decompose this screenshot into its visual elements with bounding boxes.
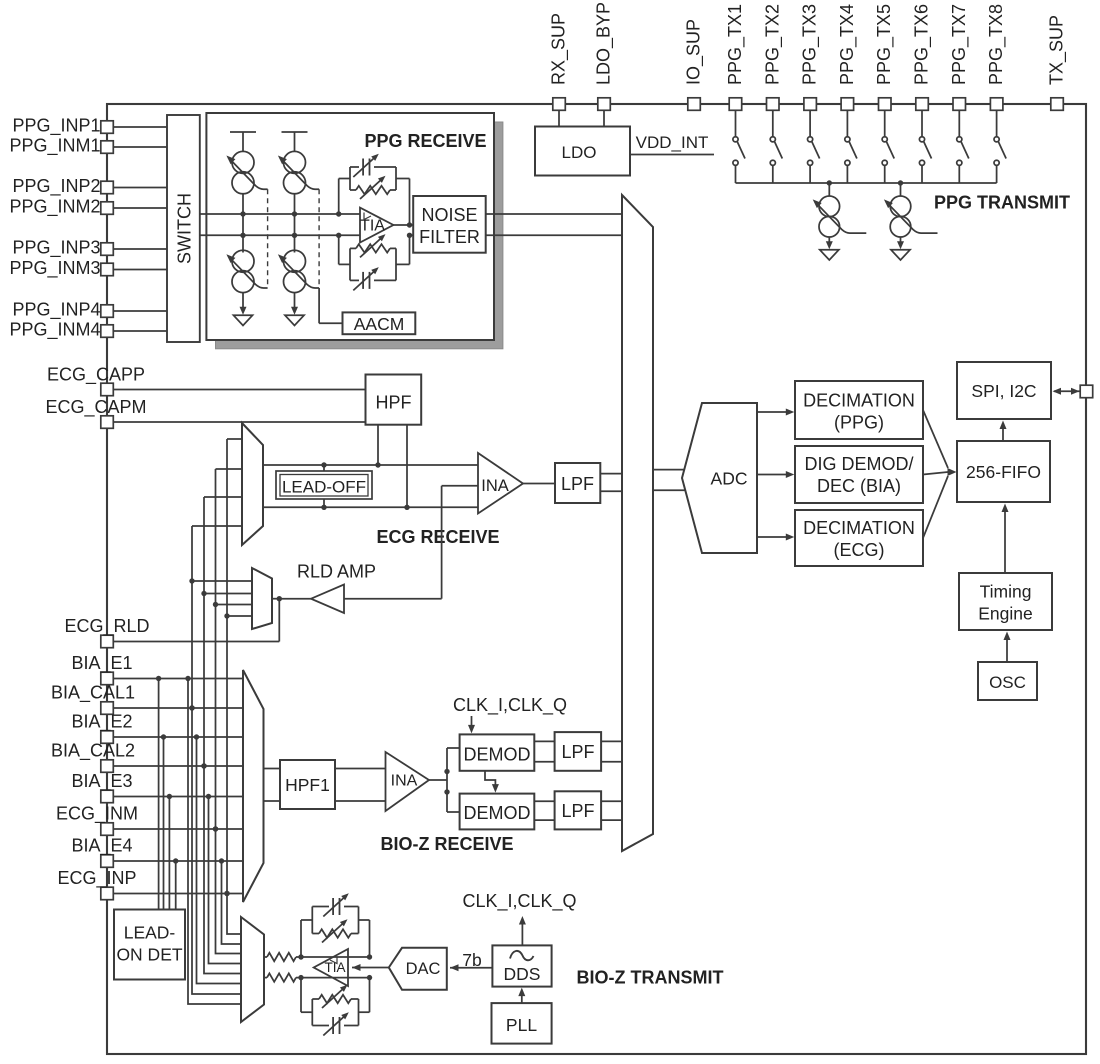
BIO-Z TX mux	[241, 917, 264, 1022]
wire to BIO-Z TX mux	[216, 829, 242, 954]
svg-text:Engine: Engine	[978, 604, 1033, 624]
svg-text:ECG_INM: ECG_INM	[56, 804, 138, 825]
block LPF (ECG)	[555, 463, 600, 503]
block OSC	[978, 662, 1037, 700]
pin PPG_INM3	[101, 263, 114, 276]
wire ECG line upper	[263, 464, 478, 466]
block LPF I	[555, 732, 602, 771]
svg-text:DEC (BIA): DEC (BIA)	[817, 476, 901, 496]
block Timing Engine	[959, 573, 1052, 630]
wire ECG mux in4	[192, 525, 242, 527]
current source lower col1	[232, 250, 254, 272]
wire to BIO-Z TX mux	[204, 766, 241, 974]
wire PPG_INP4 to SWITCH	[114, 310, 168, 312]
pin IO_SUP	[688, 98, 701, 111]
PPG RECEIVE block shadow	[216, 122, 503, 349]
arrow DDS to CLK_I,CLK_Q	[521, 921, 523, 945]
ADC block	[682, 403, 757, 553]
svg-text:DECIMATION: DECIMATION	[803, 391, 915, 411]
pin PPG_TX3	[804, 98, 817, 111]
svg-text:PPG_TX5: PPG_TX5	[874, 4, 895, 85]
svg-text:256-FIFO: 256-FIFO	[966, 462, 1041, 482]
svg-text:PPG_INP4: PPG_INP4	[12, 300, 100, 321]
current source upper col2	[284, 151, 306, 173]
arrow CLK to DEMOD I	[471, 716, 473, 729]
ECG input mux	[242, 423, 263, 545]
svg-text:PPG_INM2: PPG_INM2	[9, 197, 100, 218]
wire RX_SUP to LDO	[558, 110, 560, 126]
svg-text:ECG RECEIVE: ECG RECEIVE	[376, 527, 499, 547]
wire NOISE FILTER out1 to mux	[486, 213, 622, 215]
pin PPG_INP1	[101, 121, 114, 134]
DAC block	[389, 948, 447, 990]
block PLL	[492, 1003, 552, 1044]
wire PPG_INM2 to SWITCH	[114, 207, 168, 209]
ground PPG TX	[826, 241, 833, 249]
wire lower net to NOISE FILTER	[410, 234, 414, 236]
wire TIA in lower	[301, 977, 370, 979]
dashed link col1	[267, 189, 269, 288]
wire RLD mux in4	[227, 615, 252, 617]
pin ECG_CAPP	[101, 383, 114, 396]
svg-text:LEAD-: LEAD-	[124, 923, 176, 943]
pin ECG_INM	[101, 823, 114, 836]
wire BIA_E3 to BIA mux	[114, 796, 244, 798]
svg-text:VDD_INT: VDD_INT	[636, 133, 709, 152]
pin PPG_TX1	[729, 98, 742, 111]
block HPF	[366, 375, 422, 425]
wire bus to tx current source	[900, 183, 902, 197]
op-amp TIA (PPG)	[360, 208, 393, 243]
switch PPG_TX6	[921, 110, 923, 136]
wire bus to tx current source	[828, 183, 830, 197]
svg-text:PPG_TX3: PPG_TX3	[800, 4, 821, 85]
pin PPG_INM1	[101, 141, 114, 154]
svg-text:PPG_TX4: PPG_TX4	[837, 4, 858, 85]
wire DEMOD Q to LPF Q b	[534, 819, 554, 821]
svg-text:ON DET: ON DET	[116, 945, 182, 965]
wire col1 to ground	[242, 293, 244, 308]
wire RLD mux in3	[216, 604, 253, 606]
arrow DAC to TIA	[352, 967, 389, 969]
op-amp INA (ECG)	[478, 453, 523, 514]
svg-text:SWITCH: SWITCH	[175, 193, 195, 264]
wire tx current source to ground	[900, 237, 902, 243]
pin PPG_TX8	[990, 98, 1003, 111]
wire RLD mux in1	[192, 580, 252, 582]
arrow into FIFO	[948, 468, 957, 476]
svg-text:PPG_TX2: PPG_TX2	[762, 4, 783, 85]
svg-text:PPG_TX8: PPG_TX8	[986, 4, 1007, 85]
analog mux (central)	[622, 195, 653, 851]
wire E1 to LEAD-ON DET	[158, 679, 160, 910]
wire PPG_INP1 to SWITCH	[114, 126, 168, 128]
block DEMOD I	[460, 734, 535, 770]
svg-text:PPG_TX7: PPG_TX7	[949, 4, 970, 85]
svg-text:DEMOD: DEMOD	[464, 803, 531, 823]
block LEAD-ON DET	[114, 910, 185, 980]
pin PPG_INP3	[101, 243, 114, 256]
arrow ADC to DECIMATION PPG	[757, 411, 789, 413]
svg-text:DDS: DDS	[504, 964, 541, 984]
wire INA out split	[429, 779, 447, 781]
wire DIG DEMOD to FIFO	[923, 472, 948, 475]
TIA TX lower feedback network	[300, 978, 302, 1013]
wire HPF left down	[377, 425, 379, 465]
current source PPG TX	[819, 196, 840, 217]
wire PPG rx line2	[200, 234, 360, 236]
block AACM	[343, 312, 416, 334]
svg-text:RLD AMP: RLD AMP	[297, 562, 376, 582]
main chip border	[107, 104, 1086, 1054]
wire INA out to LPF	[523, 483, 555, 485]
arrow DEMOD I to DEMOD Q	[485, 771, 495, 787]
wire TIA in upper	[301, 956, 370, 958]
wire NOISE FILTER out2 to mux	[486, 234, 622, 236]
wire to BIO-Z TX mux	[222, 861, 242, 944]
wire PPG rx line1	[200, 213, 360, 215]
wire PPG_INM1 to SWITCH	[114, 146, 168, 148]
wire ECG mux in2	[216, 468, 243, 470]
block DEMOD Q	[460, 794, 535, 830]
svg-text:LPF: LPF	[561, 474, 594, 494]
wire BIA mux to HPF1 upper	[264, 768, 281, 770]
block 256-FIFO	[957, 441, 1050, 502]
wire DECIMATION PPG to FIFO	[923, 410, 948, 468]
svg-text:INA: INA	[481, 477, 509, 495]
wire harness vertical INP/ECG	[226, 439, 228, 894]
wire PPG_INP3 to SWITCH	[114, 248, 168, 250]
svg-text:(PPG): (PPG)	[834, 413, 884, 433]
svg-text:PPG_INM3: PPG_INM3	[9, 258, 100, 279]
svg-text:INA: INA	[391, 773, 418, 790]
wire SPI to pin (bidirectional)	[1054, 390, 1080, 392]
switch PPG_TX2	[772, 110, 774, 136]
pin BIA_E3	[101, 790, 114, 803]
wire LPF to mux 2	[600, 490, 622, 492]
arrow Timing Engine to FIFO	[1004, 507, 1006, 573]
pin PPG_INM4	[101, 325, 114, 338]
svg-text:LPF: LPF	[561, 801, 594, 821]
arrow ADC to DECIMATION ECG	[757, 536, 789, 538]
block DECIMATION (PPG)	[795, 381, 923, 439]
wire AACM link	[319, 322, 342, 324]
svg-text:ECG_CAPP: ECG_CAPP	[47, 365, 145, 386]
ground col1	[240, 307, 247, 315]
wire LEAD-OFF bottom stub	[323, 499, 325, 507]
wire RLD amp out	[279, 598, 311, 600]
pin PPG_INM2	[101, 202, 114, 215]
svg-text:BIO-Z TRANSMIT: BIO-Z TRANSMIT	[577, 968, 724, 988]
RLD mux	[252, 568, 272, 629]
pin ECG_RLD	[101, 635, 114, 648]
wire PPG_INM4 to SWITCH	[114, 330, 168, 332]
pin PPG_TX2	[767, 98, 780, 111]
wire LEAD-OFF top stub	[323, 465, 325, 471]
svg-text:ECG_INP: ECG_INP	[57, 868, 136, 889]
svg-text:CLK_I,CLK_Q: CLK_I,CLK_Q	[453, 695, 567, 716]
arrow ADC to DIG DEMOD	[757, 474, 789, 476]
dashed link col2	[318, 189, 320, 288]
svg-text:BIO-Z RECEIVE: BIO-Z RECEIVE	[380, 834, 513, 854]
pin BIA_E2	[101, 731, 114, 744]
switch PPG_TX1	[735, 110, 737, 136]
wire PPG_INP2 to SWITCH	[114, 187, 168, 189]
wire col2 vertical	[294, 194, 296, 253]
switch PPG_TX5	[884, 110, 886, 136]
switch PPG_TX8	[996, 110, 998, 136]
arrow OSC to Timing Engine	[1006, 636, 1008, 662]
pin BIA_CAL1	[101, 702, 114, 715]
wire ECG_INP to BIA mux	[114, 893, 244, 895]
block DIG DEMOD/DEC (BIA)	[795, 446, 923, 503]
wire tx current source to ground	[828, 237, 830, 243]
svg-text:BIA_CAL2: BIA_CAL2	[51, 741, 135, 762]
switch PPG_TX7	[958, 110, 960, 136]
TIA upper feedback network	[338, 179, 340, 215]
pin PPG_TX4	[841, 98, 854, 111]
wire col2 to ground	[294, 293, 296, 308]
wire harness vertical CAL1/ECG	[191, 526, 193, 708]
wire DECIMATION ECG to FIFO	[923, 476, 948, 538]
svg-text:BIA_E2: BIA_E2	[71, 712, 132, 733]
svg-text:PPG_TX6: PPG_TX6	[912, 4, 933, 85]
wire LPF Q to mux b	[601, 819, 622, 821]
wire ECG line lower	[263, 506, 478, 508]
block HPF1	[280, 760, 335, 809]
block DDS	[492, 945, 551, 986]
resistor TX lower	[264, 977, 267, 979]
svg-text:Timing: Timing	[980, 582, 1032, 602]
pin BIA_E1	[101, 672, 114, 685]
svg-text:PLL: PLL	[506, 1015, 537, 1035]
wire TIA out to NOISE FILTER	[393, 224, 413, 226]
current source upper col1	[232, 151, 254, 173]
wire E4 to LEAD-ON DET	[175, 861, 177, 910]
svg-text:LDO: LDO	[562, 143, 597, 162]
svg-text:AACM: AACM	[354, 314, 405, 334]
svg-text:DAC: DAC	[406, 960, 441, 978]
pin PPG_TX5	[879, 98, 892, 111]
block LEAD-OFF	[276, 471, 372, 499]
op-amp INA (BIO-Z)	[386, 752, 430, 811]
wire ECG_RLD pin to mux	[114, 641, 280, 643]
svg-text:DECIMATION: DECIMATION	[803, 518, 915, 538]
pin PPG_TX7	[953, 98, 966, 111]
wire ECG mux in1	[227, 438, 242, 440]
svg-text:ECG_RLD: ECG_RLD	[64, 616, 149, 637]
svg-text:FILTER: FILTER	[419, 227, 480, 247]
svg-text:PPG_TX1: PPG_TX1	[725, 4, 746, 85]
wire ECG mux in3	[204, 496, 242, 498]
arrow DDS to DAC	[450, 967, 492, 969]
wire VDD_INT	[630, 154, 714, 156]
pin ECG_CAPM	[101, 416, 114, 429]
svg-text:BIA_E4: BIA_E4	[71, 836, 132, 857]
PPG RX supply bar col2	[282, 131, 308, 133]
svg-text:LPF: LPF	[561, 742, 594, 762]
op-amp RLD (points left)	[311, 585, 344, 614]
BIA input mux	[243, 670, 264, 902]
wire to BIO-Z TX mux	[197, 737, 242, 984]
wire to BIO-Z TX mux	[209, 797, 242, 964]
wire to BIO-Z TX mux	[227, 894, 241, 935]
svg-text:BIA_CAL1: BIA_CAL1	[51, 683, 135, 704]
pin PPG_TX6	[916, 98, 929, 111]
svg-text:PPG TRANSMIT: PPG TRANSMIT	[934, 193, 1070, 213]
svg-text:ADC: ADC	[711, 469, 748, 489]
wire BIA_CAL1 to BIA mux	[114, 707, 244, 709]
svg-text:PPG_INM4: PPG_INM4	[9, 320, 100, 341]
svg-text:LEAD-OFF: LEAD-OFF	[282, 478, 366, 497]
arrow FIFO to SPI	[1002, 425, 1004, 441]
wire RLD tap to INA	[442, 485, 478, 487]
pin SPI right border	[1080, 385, 1093, 398]
svg-text:RX_SUP: RX_SUP	[549, 13, 570, 85]
svg-text:LDO_BYP: LDO_BYP	[594, 2, 615, 85]
wire BIA_E2 to BIA mux	[114, 736, 244, 738]
pin LDO_BYP	[598, 98, 611, 111]
PPG RX supply bar col1	[230, 131, 256, 133]
PPG RECEIVE block box	[206, 113, 494, 340]
ground PPG TX	[897, 241, 904, 249]
wire ECG_INM to BIA mux	[114, 828, 244, 830]
block NOISE FILTER	[413, 196, 486, 253]
wire ECG_CAPP to HPF	[114, 389, 366, 391]
svg-text:BIA_E1: BIA_E1	[71, 653, 132, 674]
block SWITCH	[167, 115, 200, 342]
svg-text:SPI, I2C: SPI, I2C	[971, 381, 1036, 401]
svg-text:ECG_CAPM: ECG_CAPM	[45, 397, 146, 418]
pin ECG_INP	[101, 887, 114, 900]
svg-text:OSC: OSC	[989, 673, 1026, 692]
wire LPF to mux 1	[600, 473, 622, 475]
svg-text:PPG_INM1: PPG_INM1	[9, 136, 100, 157]
svg-text:IO_SUP: IO_SUP	[684, 19, 705, 85]
pin RX_SUP	[553, 98, 566, 111]
wire BIA_E4 to BIA mux	[114, 860, 244, 862]
wire harness vertical CAL2/ECG	[203, 497, 205, 766]
wire to BIO-Z TX mux	[192, 708, 241, 994]
svg-text:HPF: HPF	[376, 393, 412, 413]
pin PPG_INP4	[101, 305, 114, 318]
wire DEMOD I to LPF I b	[534, 761, 554, 763]
wire mux to ADC b	[653, 489, 687, 491]
wire PPG_INM3 to SWITCH	[114, 269, 168, 271]
switch PPG_TX3	[809, 110, 811, 136]
block LDO	[535, 127, 630, 176]
wire LDO_BYP to LDO	[603, 110, 605, 126]
current source PPG TX	[890, 196, 911, 217]
DDS sine symbol	[510, 951, 534, 960]
op-amp TIA (BIO-Z TX, points left)	[314, 949, 348, 986]
wire to BIO-Z TX mux	[188, 679, 241, 1005]
block DECIMATION (ECG)	[795, 510, 923, 566]
wire BIA_E1 to BIA mux	[114, 678, 244, 680]
wire DEMOD I to LPF I a	[534, 740, 554, 742]
block SPI, I2C	[957, 362, 1051, 419]
pin BIA_CAL2	[101, 760, 114, 773]
wire RLD tap vertical	[441, 486, 443, 599]
wire HPF1 to INA upper	[335, 768, 386, 770]
svg-text:(ECG): (ECG)	[834, 540, 885, 560]
svg-text:DEMOD: DEMOD	[464, 745, 531, 765]
svg-text:HPF1: HPF1	[285, 775, 330, 795]
pin PPG_INP2	[101, 181, 114, 194]
wire LPF Q to mux a	[601, 800, 622, 802]
pin BIA_E4	[101, 855, 114, 868]
wire mux to ADC a	[653, 469, 687, 471]
svg-text:PPG RECEIVE: PPG RECEIVE	[364, 131, 486, 151]
resistor TX upper	[264, 956, 267, 958]
wire HPF right down	[406, 425, 408, 508]
wire PPG TX bus	[736, 182, 997, 184]
wire harness vertical INM/ECG	[215, 469, 217, 829]
svg-text:CLK_I,CLK_Q: CLK_I,CLK_Q	[462, 891, 576, 912]
wire BIA_CAL2 to BIA mux	[114, 765, 244, 767]
wire DEMOD Q to LPF Q a	[534, 800, 554, 802]
svg-text:BIA_E3: BIA_E3	[71, 771, 132, 792]
wire ECG_CAPM to HPF	[114, 421, 366, 423]
svg-text:TX_SUP: TX_SUP	[1047, 15, 1068, 85]
wire LPF I to mux b	[601, 761, 622, 763]
svg-text:PPG_INP3: PPG_INP3	[12, 238, 100, 259]
TIA lower feedback network	[338, 235, 340, 264]
wire col1 vertical	[242, 194, 244, 253]
current source lower col2	[284, 250, 306, 272]
wire RLD amp in	[344, 598, 442, 600]
ground col2	[291, 307, 298, 315]
TIA TX upper feedback network	[300, 920, 302, 957]
wire BIA mux to HPF1 lower	[264, 800, 281, 802]
wire LPF I to mux a	[601, 740, 622, 742]
wire E2 to LEAD-ON DET	[163, 737, 165, 910]
wire RLD mux out	[272, 598, 279, 600]
wire E3 to LEAD-ON DET	[168, 797, 170, 910]
svg-text:NOISE: NOISE	[421, 205, 477, 225]
svg-text:PPG_INP1: PPG_INP1	[12, 116, 100, 137]
svg-text:DIG DEMOD/: DIG DEMOD/	[804, 454, 913, 474]
svg-text:PPG_INP2: PPG_INP2	[12, 176, 100, 197]
wire RLD mux in2	[204, 593, 252, 595]
pin TX_SUP	[1051, 98, 1064, 111]
switch PPG_TX4	[846, 110, 848, 136]
block LPF Q	[555, 791, 602, 829]
arrow PLL to DDS	[521, 992, 523, 1003]
wire HPF1 to INA lower	[335, 800, 386, 802]
